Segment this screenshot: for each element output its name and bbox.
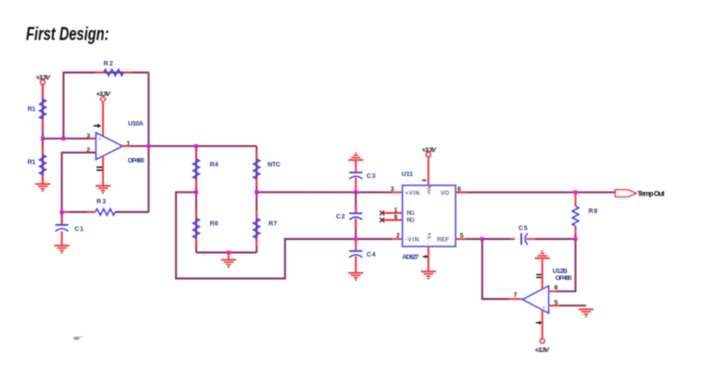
- pin mark U11 pin7: [422, 179, 426, 181]
- wire tap to pin3: [43, 138, 96, 140]
- pin stub C5 left: [511, 238, 515, 240]
- pin mark U11 pin4: [423, 255, 429, 259]
- pin stub R8: [575, 192, 577, 206]
- wire bridge-right tap to +VIN: [257, 191, 392, 193]
- pin stub U11 REF: [456, 238, 467, 240]
- resistor R1 (bottom): [28, 155, 46, 175]
- ground (U10A): [96, 186, 111, 194]
- wire bridge top: [196, 145, 256, 147]
- capacitor C2: [336, 213, 362, 220]
- junction output-feedback: [147, 144, 151, 148]
- svg-text:+3.3V: +3.3V: [36, 75, 52, 82]
- pin stub RG8 with no-connect X: [382, 219, 403, 221]
- svg-text:U10A: U10A: [128, 120, 144, 127]
- svg-text:+3.3V: +3.3V: [96, 91, 112, 98]
- wire node to C1: [61, 212, 63, 225]
- supply wire U11 V-: [427, 246, 429, 271]
- supply wire U10A V-: [102, 156, 104, 186]
- wire R2 loop right vertical: [148, 73, 150, 213]
- op-amp U12B body: [523, 286, 549, 313]
- wire bridge left vertical: [195, 146, 197, 252]
- power +3.3V (U11): [422, 147, 438, 157]
- svg-text:First Design:: First Design:: [26, 23, 109, 44]
- net connector Temp Out: [615, 189, 665, 198]
- junction R2 feedback on pin3 wire: [62, 137, 66, 141]
- wire pin6 feedback: [557, 239, 576, 291]
- stray smudge mark: [73, 336, 83, 340]
- svg-text:+VIN: +VIN: [405, 191, 420, 197]
- wire pin2 to R3 node: [62, 153, 97, 212]
- svg-text:C3: C3: [367, 173, 376, 180]
- junction REF-follower: [480, 237, 484, 241]
- pin stub U12B pin5: [549, 305, 560, 307]
- svg-text:C5: C5: [519, 225, 528, 232]
- ground (bridge): [221, 260, 236, 268]
- wire U10A output: [123, 145, 197, 147]
- junction C3 node: [354, 190, 358, 194]
- svg-text:OP490: OP490: [128, 158, 145, 165]
- pin stub AD627 pin3: [392, 191, 403, 193]
- supply wire U11 V+: [427, 157, 429, 185]
- wire C1 to ground: [61, 231, 63, 245]
- svg-text:Temp Out: Temp Out: [638, 189, 666, 198]
- ground up-symbol (above U12B): [535, 250, 550, 258]
- svg-text:R8: R8: [589, 208, 598, 215]
- resistor R7: [253, 218, 277, 238]
- svg-text:2: 2: [396, 233, 400, 240]
- pin stub R4: [195, 151, 197, 159]
- resistor R3: [95, 199, 115, 216]
- ground (C1): [54, 246, 69, 254]
- wire follower output loop: [482, 239, 509, 299]
- svg-text:3: 3: [391, 186, 395, 193]
- wire REF to C5 node: [456, 238, 515, 240]
- resistor R8: [572, 206, 598, 226]
- pin mark U12B V+ pin: [536, 321, 542, 325]
- pin mark U10A V- pin11: [97, 167, 103, 170]
- wire C4 to ground: [355, 256, 357, 273]
- svg-text:VO: VO: [441, 191, 450, 197]
- svg-text:-: -: [99, 152, 101, 158]
- svg-text:RG: RG: [407, 211, 415, 217]
- thermistor NTC: [253, 159, 280, 179]
- pin stub R1 top: [42, 85, 44, 99]
- capacitor C4: [349, 251, 376, 259]
- svg-text:R1: R1: [28, 106, 36, 113]
- pin stub C1 top: [61, 217, 63, 225]
- wire C4 top: [355, 239, 357, 251]
- power +3.3V (U12B): [535, 339, 551, 355]
- svg-text:R2: R2: [104, 61, 114, 68]
- pin stub C2 bottom: [355, 219, 357, 229]
- pin mark U10A V+ pin4: [94, 124, 102, 128]
- pin stub U10A pin3: [88, 138, 96, 140]
- junction R3/C1 node: [60, 210, 64, 214]
- svg-text:-: -: [543, 291, 545, 297]
- svg-text:+: +: [98, 137, 102, 143]
- capacitor C5: [519, 225, 528, 245]
- wire C2 top: [355, 192, 357, 213]
- ground (left divider): [35, 184, 50, 192]
- ground (U12B pin5): [579, 309, 594, 317]
- junction bridge top-left: [194, 144, 198, 148]
- pin stub U10A pin2: [88, 152, 97, 154]
- resistor R1 (top): [28, 99, 46, 119]
- wire divider vertical: [42, 85, 44, 185]
- pin stub R2 left-right: [96, 72, 104, 74]
- svg-text:+Vs: +Vs: [427, 186, 433, 195]
- svg-text:+3.3V: +3.3V: [422, 147, 438, 154]
- pin stub RG1 with no-connect X: [382, 212, 403, 214]
- pin stub AD627 pin2: [392, 238, 403, 240]
- supply wire U12B V+ down: [541, 310, 543, 339]
- resistor R6: [193, 218, 219, 238]
- pin stub U12B output: [509, 298, 523, 300]
- supply wire U10A V+: [102, 103, 104, 137]
- svg-text:7: 7: [514, 292, 518, 299]
- svg-text:OP490: OP490: [555, 275, 572, 282]
- pin stub R7: [256, 210, 258, 218]
- pin stub C5 right: [527, 238, 536, 240]
- in-amp U11 AD627 body: [403, 185, 456, 246]
- svg-text:REF: REF: [437, 237, 449, 243]
- svg-text:R6: R6: [210, 221, 219, 228]
- pin stub U11 VO: [456, 191, 467, 193]
- ground (U11): [421, 272, 436, 280]
- pin stub U12B pin6: [549, 290, 557, 292]
- wire C3 bottom: [355, 178, 357, 193]
- svg-text:3: 3: [87, 133, 91, 140]
- wire VO to TempOut: [456, 191, 616, 193]
- resistor R4: [193, 159, 219, 179]
- capacitor C1: [55, 225, 84, 233]
- resistor R2: [104, 61, 124, 76]
- power +3.3V (U10A): [96, 91, 112, 102]
- wire bridge-left tap to -VIN (loop): [176, 192, 392, 278]
- wire bridge ground stub: [228, 253, 230, 260]
- wire C2 bottom: [355, 219, 357, 240]
- pin stub R1 bottom: [42, 146, 44, 155]
- pin stub NTC: [256, 151, 258, 159]
- ground (C4): [348, 273, 363, 281]
- svg-text:R7: R7: [269, 221, 278, 228]
- svg-text:R4: R4: [210, 161, 219, 168]
- wire R3 left: [62, 211, 95, 213]
- svg-text:R3: R3: [97, 199, 107, 206]
- wire C5 to R8 node: [535, 238, 576, 240]
- svg-text:C2: C2: [336, 214, 345, 221]
- wire bridge right vertical: [256, 146, 258, 252]
- pin stub U10A output: [123, 145, 132, 147]
- svg-text:NTC: NTC: [268, 161, 281, 168]
- junction C5-R8-pin6: [574, 237, 578, 241]
- pin stub R3: [64, 211, 70, 213]
- junction C4 node: [354, 237, 358, 241]
- junction bridge mid-left: [194, 190, 198, 194]
- pin mark U12B V- pin: [536, 275, 541, 278]
- power +3.3V (left divider): [36, 75, 52, 85]
- junction divider tap: [41, 137, 45, 141]
- pin stub C2 top: [355, 205, 357, 213]
- svg-text:AD627: AD627: [402, 254, 419, 261]
- svg-text:U11: U11: [402, 171, 414, 178]
- junction VO-R8: [574, 190, 578, 194]
- wire R3 right: [115, 211, 148, 213]
- svg-text:R1: R1: [28, 159, 36, 166]
- wire R2 loop left+top: [64, 73, 149, 139]
- junction bridge bottom: [227, 251, 231, 255]
- wire R8 bottom: [575, 234, 577, 239]
- svg-text:C4: C4: [367, 252, 376, 259]
- svg-text:RG: RG: [407, 218, 415, 224]
- svg-text:-Vs: -Vs: [427, 232, 433, 241]
- wire bridge bottom: [196, 252, 256, 254]
- svg-text:C1: C1: [75, 226, 84, 233]
- supply wire U12B V- up: [541, 259, 543, 290]
- pin stub R6: [195, 210, 197, 218]
- wire C3 top: [355, 160, 357, 173]
- ground up-symbol (above C3): [348, 152, 363, 160]
- op-amp U10A body: [96, 133, 123, 160]
- junction bridge mid-right: [255, 190, 259, 194]
- svg-text:+3.3V: +3.3V: [535, 347, 551, 354]
- wire pin5 to ground: [560, 305, 586, 307]
- svg-text:-VIN: -VIN: [405, 237, 419, 243]
- capacitor C3: [349, 173, 376, 181]
